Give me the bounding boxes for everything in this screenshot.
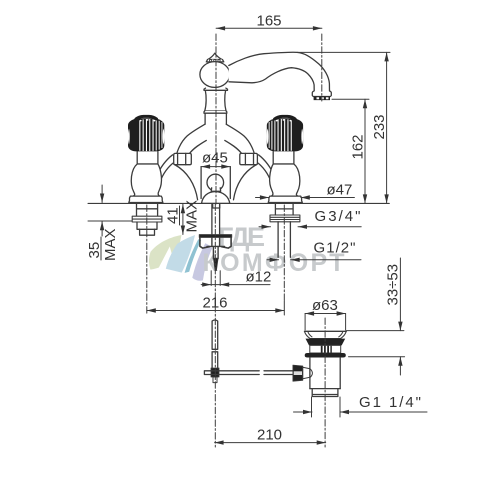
drain body inner arc	[310, 369, 313, 378]
ALL LINE ART	[86, 26, 427, 447]
valve body	[131, 164, 161, 196]
svg-text:ø12: ø12	[246, 269, 272, 286]
centerline left shank	[146, 205, 148, 315]
dimension 210	[215, 440, 326, 444]
drain cone	[303, 367, 310, 379]
drain funnel	[305, 332, 347, 339]
logo lavender wedge	[192, 243, 212, 281]
svg-text:ø63: ø63	[312, 297, 338, 314]
valve stem	[137, 152, 158, 165]
dimension ø45	[201, 164, 230, 168]
aerator collar	[312, 91, 331, 97]
bridge arm tube	[156, 155, 172, 186]
spout tube under edge	[229, 68, 314, 91]
drain knurled knob	[293, 365, 303, 381]
drain slotted plug	[310, 345, 341, 353]
spout finial	[208, 53, 222, 59]
spout column vase	[205, 90, 226, 110]
arch inner curve	[189, 140, 206, 153]
faucet body left half	[128, 116, 206, 202]
ball neck	[211, 188, 221, 192]
centerline drain	[324, 318, 326, 447]
spout column lower	[205, 113, 226, 124]
svg-text:165: 165	[257, 13, 282, 30]
spout column ring bottom	[204, 111, 227, 113]
svg-text:MAX: MAX	[102, 228, 119, 261]
svg-text:G1 1/4": G1 1/4"	[359, 394, 421, 411]
watermark logo	[149, 235, 212, 281]
right shank tail	[278, 222, 290, 258]
pop-up rod lower	[213, 247, 218, 259]
spout tube top edge	[229, 52, 330, 91]
bell dome	[202, 192, 230, 204]
extension line 233 top	[297, 51, 390, 53]
horizontal rod segment B	[264, 371, 293, 375]
dimension ø47	[256, 195, 355, 199]
left shank nut	[132, 216, 162, 222]
logo teal streak	[185, 239, 202, 273]
leader G3/4	[259, 225, 361, 229]
rod tip	[213, 258, 218, 270]
dimension 35 MAX	[88, 185, 132, 260]
dimension 233	[384, 52, 388, 203]
svg-text:233: 233	[371, 114, 388, 139]
drain body	[310, 358, 340, 389]
leader G1/2	[267, 258, 361, 262]
right shank nut	[270, 215, 300, 222]
svg-text:MAX: MAX	[184, 200, 201, 233]
handle knob	[128, 118, 164, 151]
side view vertical rod	[212, 320, 218, 368]
hex nut	[174, 153, 192, 164]
right shank thread	[275, 204, 293, 215]
rod guide under deck	[213, 204, 220, 208]
svg-text:ø45: ø45	[202, 150, 228, 167]
pop-up ball	[207, 174, 224, 191]
spout ball	[200, 62, 230, 88]
left shank step	[137, 222, 157, 229]
deck line	[88, 202, 389, 204]
arch outer curve	[177, 124, 205, 154]
drain tailpipe	[310, 389, 340, 397]
dimension 165	[216, 26, 322, 30]
svg-text:G1/2": G1/2"	[314, 240, 356, 257]
left shank tail	[140, 229, 155, 235]
dimension 216	[147, 308, 284, 312]
dimension 41 MAX	[180, 204, 186, 234]
centerline spout column	[215, 34, 217, 204]
horizontal rod segment A	[204, 371, 259, 375]
extension line 162 top	[332, 98, 369, 100]
logo blue wedge	[166, 235, 195, 273]
dimension ø63	[305, 311, 346, 330]
svg-text:ø47: ø47	[327, 182, 353, 199]
spout column ring top	[204, 88, 228, 90]
aerator knurl band	[314, 97, 330, 101]
svg-text:162: 162	[350, 134, 367, 159]
dimension 33÷53	[398, 258, 402, 375]
pop-up rod below deck	[212, 204, 220, 234]
centerline pop-up rod	[214, 204, 216, 447]
centerline spout outlet	[321, 34, 323, 101]
drain dark band	[306, 339, 346, 346]
left shank thread	[137, 204, 158, 216]
extension lines 33÷53	[346, 331, 404, 357]
rod clamp	[211, 368, 219, 377]
drain flange top	[305, 330, 347, 332]
svg-text:33÷53: 33÷53	[385, 264, 402, 306]
spout tube fill	[229, 52, 330, 91]
leader G1 1/4	[294, 397, 428, 417]
dimension ø12	[201, 271, 270, 287]
faucet body right half (mirror)	[225, 116, 303, 202]
valve flange	[129, 196, 163, 202]
logo green wedge	[149, 235, 182, 270]
drain locknut ring	[305, 353, 346, 358]
svg-text:210: 210	[257, 427, 282, 444]
logo white chevron	[157, 247, 177, 273]
dimension 162	[363, 99, 367, 203]
escutcheon cover cylinder	[200, 167, 202, 199]
centerline right shank	[283, 205, 285, 301]
pop-up fork	[199, 235, 231, 238]
armpit curve	[175, 165, 198, 200]
svg-text:35: 35	[86, 242, 103, 259]
svg-text:41: 41	[165, 207, 182, 224]
